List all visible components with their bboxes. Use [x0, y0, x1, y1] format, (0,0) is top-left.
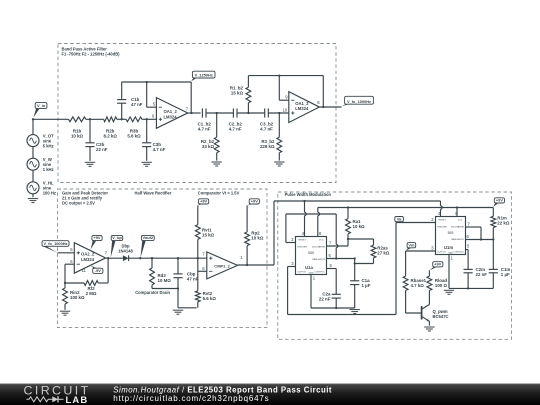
- footer attribution text: [113, 386, 332, 404]
- svg-text:8.2 kΩ: 8.2 kΩ: [104, 134, 118, 139]
- svg-text:OUTPUT: OUTPUT: [437, 252, 447, 254]
- label Rvt1: [202, 227, 215, 237]
- wire V_HL to ground: [32, 194, 34, 197]
- junction feedback/pin5: [146, 81, 148, 83]
- net flag V_bp: [111, 235, 123, 257]
- pin numbers U1m: [431, 211, 470, 261]
- svg-text:GND: GND: [309, 272, 314, 274]
- capacitor C2m: [464, 269, 473, 288]
- ground under sources: [28, 199, 38, 203]
- svg-text:5.6 kΩ: 5.6 kΩ: [127, 134, 141, 139]
- ground under Q_pwm emitter: [424, 327, 434, 331]
- node R2_b2 tap: [216, 112, 218, 114]
- svg-text:C1m: C1m: [501, 267, 511, 272]
- wire trigger to threshold: [336, 214, 338, 259]
- net flag Vm: [406, 242, 416, 250]
- resistor Rin2: [63, 283, 68, 310]
- resistor R2b: [104, 117, 117, 122]
- resistor Rload: [427, 270, 432, 290]
- svg-text:Vout2: Vout2: [143, 235, 154, 240]
- label C2b 22nF: [96, 142, 108, 152]
- svg-text:1 kHz: 1 kHz: [43, 167, 54, 172]
- label Rf2: [86, 286, 97, 296]
- label Rbase1: [411, 278, 427, 288]
- wire Rload to collector: [428, 291, 430, 305]
- net flag Vout2: [140, 235, 154, 257]
- svg-text:5 kHz: 5 kHz: [43, 144, 54, 149]
- svg-text:CMP2_2: CMP2_2: [214, 263, 230, 268]
- svg-text:R1m: R1m: [497, 215, 507, 220]
- junction divider/signal: [197, 257, 199, 259]
- label Rload: [435, 278, 448, 288]
- node OA1_2 output: [190, 112, 192, 114]
- label CMP2_2: [214, 263, 230, 268]
- +9V flag Rp2: [247, 199, 259, 206]
- wire +9V rail: [318, 207, 494, 209]
- wire C3_b2 to OA1_3 +: [268, 112, 289, 114]
- op-amp OA2_2: [74, 243, 105, 274]
- svg-text:4.7 nF: 4.7 nF: [198, 127, 211, 132]
- svg-text:47 nF: 47 nF: [187, 276, 199, 281]
- wire: OA1_2 feedback net: [122, 82, 192, 113]
- junction R2as/C1a: [354, 262, 356, 264]
- capacitor C1a: [350, 259, 359, 309]
- svg-text:V_HL: V_HL: [43, 181, 54, 186]
- svg-text:C1a: C1a: [362, 278, 371, 283]
- label C2a: [319, 292, 331, 302]
- ground under Rin2: [60, 311, 70, 315]
- svg-text:R2as: R2as: [377, 246, 388, 251]
- svg-text:10 kΩ: 10 kΩ: [251, 235, 264, 240]
- svg-text:V_in: V_in: [37, 103, 46, 108]
- svg-text:C2a: C2a: [322, 292, 331, 297]
- 555 timer U1a: [296, 237, 327, 275]
- resistor R1_b2: [246, 76, 251, 113]
- wire Rbase1 to base: [406, 291, 422, 314]
- svg-text:11: 11: [82, 268, 87, 273]
- junction discharge/threshold: [480, 238, 482, 240]
- label C2m: [476, 267, 488, 277]
- wire U1a control: [327, 269, 337, 295]
- resistor Rf2: [84, 281, 98, 286]
- wire V_OT to V_W: [32, 147, 34, 159]
- svg-text:R2_b2: R2_b2: [201, 139, 215, 144]
- svg-text:2 MΩ: 2 MΩ: [86, 291, 97, 296]
- resistor R2as: [371, 239, 376, 264]
- box 2 title: [62, 190, 108, 205]
- label Q_pwm BC547C: [433, 309, 449, 319]
- svg-text:sine: sine: [43, 162, 52, 167]
- wire: V_in node to R1b: [33, 119, 69, 134]
- wire OA1_2 out: [188, 112, 201, 114]
- svg-text:V_fo_1000Hz: V_fo_1000Hz: [347, 99, 371, 104]
- svg-text:22 nF: 22 nF: [476, 272, 488, 277]
- label Rin2: [70, 290, 85, 300]
- label OA1_3 LM324: [295, 101, 309, 111]
- svg-text:10: 10: [283, 107, 288, 112]
- svg-text:22 nF: 22 nF: [319, 297, 331, 302]
- label R3_b2: [260, 139, 275, 149]
- ground under C3b: [142, 162, 152, 166]
- svg-text:LAB: LAB: [66, 394, 89, 405]
- junction Ra1/discharge: [347, 238, 349, 240]
- wire U1a pin 8 drop: [318, 208, 320, 237]
- resistor Rvt2: [195, 291, 200, 302]
- svg-text:Rvt1: Rvt1: [202, 227, 212, 232]
- label V_HL sine 100 Hz: [43, 181, 56, 196]
- node Rd2 tap: [151, 257, 153, 259]
- ground under R3_b2: [274, 162, 284, 166]
- svg-text:OA2_2: OA2_2: [81, 252, 95, 257]
- wire Vm: U1m out to Rbase1: [406, 251, 436, 276]
- pin numbers U1a: [291, 231, 332, 281]
- op-amp OA1_2: [156, 98, 187, 129]
- wire C2_b2 to C3_b2: [237, 112, 265, 114]
- comparator title: [198, 190, 240, 195]
- svg-text:V_1250Hz: V_1250Hz: [195, 73, 213, 78]
- wire U1m bottom rail: [449, 287, 493, 289]
- capacitor C1_b2: [202, 108, 206, 117]
- svg-text:15 kΩ: 15 kΩ: [202, 232, 215, 237]
- svg-text:C2_b2: C2_b2: [229, 122, 243, 127]
- wire U1a trigger net: [286, 214, 336, 243]
- svg-text:+9V: +9V: [496, 198, 503, 203]
- wire U1m pin1: [448, 255, 450, 289]
- node R3_b2 tap: [278, 112, 280, 114]
- svg-text:C1b: C1b: [131, 97, 140, 102]
- svg-text:Pulse Width Modulation: Pulse Width Modulation: [285, 192, 332, 197]
- wire U1a ground rail: [311, 275, 355, 309]
- label Rd2: [158, 273, 172, 283]
- junction threshold/R1m: [492, 238, 494, 240]
- net flag V_fo_1000Hz out: [342, 96, 374, 106]
- node Vout2 tap: [139, 257, 141, 259]
- resistor R2_b2: [214, 113, 219, 161]
- svg-text:Comparator Vt = 1.5V: Comparator Vt = 1.5V: [198, 190, 240, 195]
- svg-text:10 kΩ: 10 kΩ: [71, 134, 84, 139]
- +9V flag Rload: [430, 262, 443, 271]
- pin numbers OA1_3: [283, 95, 321, 113]
- svg-text:Rp2: Rp2: [251, 230, 260, 235]
- svg-text:100 Ω: 100 Ω: [435, 283, 448, 288]
- svg-text:-9V: -9V: [95, 268, 101, 273]
- junction rail/Ra1: [347, 206, 349, 208]
- svg-text:F1 -750Hz F2 - 1250Hz (-40dB): F1 -750Hz F2 - 1250Hz (-40dB): [62, 52, 121, 57]
- svg-text:10 kΩ: 10 kΩ: [353, 224, 366, 229]
- wire U1a threshold: [327, 258, 355, 260]
- wire Rvt2 to drain rail: [197, 302, 199, 308]
- svg-text:Rvt2: Rvt2: [203, 291, 213, 296]
- svg-text:47 nF: 47 nF: [131, 102, 143, 107]
- net flag Va: [395, 216, 404, 222]
- svg-text:CONTROL: CONTROL: [453, 252, 464, 254]
- wire R2as bottom: [355, 263, 374, 265]
- label V_W sine 1 kHz: [43, 157, 54, 172]
- junction threshold/C1a: [354, 257, 356, 259]
- svg-text:27 kΩ: 27 kΩ: [377, 251, 390, 256]
- svg-text:555: 555: [448, 231, 454, 235]
- svg-text:U1a: U1a: [305, 265, 313, 270]
- wire V_W to V_HL: [32, 170, 34, 182]
- svg-text:Rin2: Rin2: [70, 290, 80, 295]
- dashed box: Gain and Peak Detector / Comparator: [58, 189, 268, 328]
- resistor Rd2: [150, 258, 155, 288]
- svg-text:CONTROL: CONTROL: [314, 272, 325, 274]
- capacitor C3_b2: [265, 108, 269, 117]
- resistor R3b: [126, 117, 142, 122]
- net flag V_in: [33, 103, 47, 118]
- svg-text:Gain and Peak Detector: Gain and Peak Detector: [62, 190, 108, 195]
- svg-text:1N4148: 1N4148: [118, 248, 133, 253]
- svg-text:33 kΩ: 33 kΩ: [202, 144, 215, 149]
- svg-text:22 nF: 22 nF: [96, 147, 108, 152]
- svg-text:LM324: LM324: [81, 257, 95, 262]
- resistor Rp2: [245, 205, 250, 265]
- pin numbers CMP2_2: [202, 251, 243, 271]
- svg-text:VCC: VCC: [458, 220, 463, 222]
- label R3b: [127, 129, 141, 139]
- svg-text:5.6 kΩ: 5.6 kΩ: [203, 296, 217, 301]
- svg-text:V_OT: V_OT: [43, 134, 54, 139]
- ground U1m: [444, 290, 454, 294]
- wire C1_b2 to C2_b2: [206, 112, 233, 114]
- label C3_b2: [260, 122, 274, 132]
- wire U1m discharge: [466, 227, 482, 240]
- wire: OA1_3 feedback net: [248, 76, 323, 107]
- resistor R1m: [491, 208, 496, 240]
- capacitor C2_b2: [233, 108, 237, 117]
- capacitor Cbp: [173, 258, 182, 288]
- resistor R1b: [69, 117, 86, 122]
- half wave rectifier title: [135, 190, 172, 195]
- svg-text:555: 555: [308, 251, 314, 255]
- svg-text:BC547C: BC547C: [433, 314, 449, 319]
- wire OA2_2 - to Rf2: [65, 264, 84, 283]
- label C2_b2: [229, 122, 243, 132]
- svg-text:RESET: RESET: [299, 240, 307, 242]
- svg-text:DC output = 2.5V: DC output = 2.5V: [62, 201, 95, 206]
- label R2as: [377, 246, 390, 256]
- ground comparator drain: [173, 310, 183, 314]
- junction rail/U1m pin8: [456, 206, 458, 208]
- 555 timer U1m: [436, 217, 466, 255]
- svg-text:http://circuitlab.com/c2h32npb: http://circuitlab.com/c2h32npbq647s: [113, 394, 269, 403]
- wire into OA2_2 +: [58, 252, 75, 254]
- source V_W: [27, 158, 39, 170]
- capacitor C1b: [117, 82, 126, 119]
- svg-text:15 kΩ: 15 kΩ: [231, 91, 244, 96]
- svg-text:sine: sine: [43, 139, 52, 144]
- source V_HL: [27, 182, 39, 194]
- svg-text:Rbase1: Rbase1: [411, 278, 427, 283]
- label C1m: [501, 267, 511, 277]
- junction C2m/rail: [467, 287, 469, 289]
- junction C2a/gnd rail: [335, 307, 337, 309]
- wire divider to comparator -: [198, 270, 207, 272]
- svg-text:226 kΩ: 226 kΩ: [260, 144, 275, 149]
- junction Rd2/Cbp bottom: [177, 287, 179, 289]
- wire diode to comparator +: [129, 257, 207, 259]
- svg-text:100 Hz: 100 Hz: [43, 191, 56, 196]
- svg-text:22 kΩ: 22 kΩ: [497, 220, 510, 225]
- label OA1_2 LM324: [164, 109, 178, 119]
- svg-text:TRIGGER: TRIGGER: [437, 227, 447, 229]
- svg-text:THRESHOLD: THRESHOLD: [312, 259, 326, 261]
- svg-text:Cbp: Cbp: [187, 271, 196, 276]
- wire OA2_2 out to diode: [106, 257, 123, 259]
- wire OA1_3 output: [319, 106, 341, 108]
- svg-text:V_fo_1000Hz: V_fo_1000Hz: [43, 241, 67, 246]
- capacitor C1m: [489, 240, 498, 289]
- label C1b 47nF: [131, 97, 143, 107]
- svg-text:4.7 nF: 4.7 nF: [260, 127, 273, 132]
- svg-text:Half Wave Rectifier: Half Wave Rectifier: [135, 190, 172, 195]
- label R1m: [497, 215, 510, 225]
- wire U1m pin 4 drop: [441, 201, 443, 217]
- svg-text:1 µF: 1 µF: [501, 272, 510, 277]
- wire Ra1 to R2as: [348, 238, 374, 240]
- svg-text:C3b: C3b: [153, 142, 162, 147]
- op-amp OA1_3: [289, 92, 320, 123]
- -9V flag OA2_2: [91, 266, 103, 274]
- wire R1b to R2b: [86, 118, 104, 120]
- label C1_b2: [198, 122, 212, 132]
- svg-text:GND: GND: [448, 252, 453, 254]
- svg-text:THRESHOLD: THRESHOLD: [451, 239, 465, 241]
- wire Va: U1a out to U1m trigger: [288, 223, 436, 315]
- svg-text:C2b: C2b: [96, 142, 105, 147]
- node Rp2/output: [246, 264, 248, 266]
- svg-text:LM324: LM324: [295, 106, 309, 111]
- svg-text:R1_b2: R1_b2: [230, 86, 244, 91]
- transistor Q_pwm: [422, 305, 430, 326]
- junction reset rail / U1a pin4: [303, 200, 305, 202]
- ground U1a: [350, 310, 360, 314]
- label Comparator Drain: [135, 290, 170, 295]
- svg-text:100 kΩ: 100 kΩ: [70, 295, 85, 300]
- svg-text:VCC: VCC: [319, 240, 324, 242]
- CircuitLab logo: [24, 383, 91, 405]
- svg-text:TRIGGER: TRIGGER: [297, 247, 307, 249]
- capacitor C3b: [142, 119, 151, 161]
- net flag V_1250Hz: [191, 71, 215, 81]
- svg-text:1 µF: 1 µF: [362, 283, 371, 288]
- pin numbers OA2_2: [70, 247, 108, 273]
- svg-text:OA1_3: OA1_3: [295, 101, 309, 106]
- dashed box: Pulse Width Modulation: [278, 192, 512, 339]
- svg-text:Rf2: Rf2: [87, 286, 95, 291]
- +9V flag PWM rail: [493, 198, 504, 207]
- svg-text:R2b: R2b: [106, 129, 115, 134]
- label OA2_2 LM324: [81, 252, 95, 262]
- svg-text:R3b: R3b: [130, 129, 139, 134]
- wire comparator output: [238, 264, 275, 266]
- pin numbers OA1_2: [152, 102, 189, 119]
- resistor Rbase1: [403, 276, 408, 290]
- svg-text:V_W: V_W: [43, 157, 52, 162]
- svg-text:10 MΩ: 10 MΩ: [158, 278, 172, 283]
- svg-text:Q_pwm: Q_pwm: [433, 309, 448, 314]
- svg-text:+9V: +9V: [434, 262, 441, 267]
- ground under R2_b2: [212, 162, 222, 166]
- svg-text:Ra1: Ra1: [353, 219, 362, 224]
- node R1_b2 tap: [247, 112, 249, 114]
- dashed box: Band Pass Active Filter: [58, 44, 336, 183]
- box 1 title: [62, 46, 121, 56]
- label Ra1: [353, 219, 366, 229]
- svg-text:Comparator Drain: Comparator Drain: [135, 290, 170, 295]
- svg-text:Rd2: Rd2: [158, 273, 167, 278]
- node C3b tap: [146, 118, 148, 120]
- svg-text:C1_b2: C1_b2: [198, 122, 212, 127]
- +9V flag Rvt1: [198, 199, 209, 206]
- node OA2_2 output: [107, 257, 109, 259]
- svg-text:4.7 kΩ: 4.7 kΩ: [411, 283, 425, 288]
- node V_in junction: [32, 118, 34, 120]
- label R2b: [104, 129, 118, 139]
- svg-text:Band Pass Active Filter: Band Pass Active Filter: [62, 46, 108, 51]
- wire U1m control: [466, 250, 469, 270]
- svg-text:Vm: Vm: [408, 242, 415, 247]
- resistor Ra1: [346, 208, 351, 240]
- label Rvt2: [203, 291, 217, 301]
- svg-text:OUTPUT: OUTPUT: [297, 272, 307, 274]
- svg-text:4.7 nF: 4.7 nF: [153, 147, 166, 152]
- svg-text:C2m: C2m: [476, 267, 486, 272]
- label R2_b2: [201, 139, 215, 149]
- label C3b: [153, 142, 166, 152]
- label Rp2: [251, 230, 264, 240]
- wire U1a pin 4 drop: [305, 201, 307, 237]
- node OA1_3 output: [322, 106, 324, 108]
- svg-text:sine: sine: [43, 186, 52, 191]
- node C1b tap: [121, 118, 123, 120]
- svg-text:Dbp: Dbp: [121, 243, 130, 248]
- svg-text:R1b: R1b: [73, 129, 82, 134]
- junction Rf2/Rin2: [64, 282, 66, 284]
- label V_OT sine 5 kHz: [43, 134, 54, 149]
- resistor R3_b2: [277, 113, 282, 161]
- svg-text:V_bp: V_bp: [112, 235, 122, 240]
- +9V flag OA2_2: [91, 235, 103, 249]
- label Dbp 1N4148: [118, 243, 133, 253]
- footer bar: [0, 384, 540, 405]
- label R1_b2: [230, 86, 244, 96]
- svg-text:RESET: RESET: [439, 220, 447, 222]
- svg-text:OA1_2: OA1_2: [164, 109, 178, 114]
- comparator CMP2_2: [207, 252, 238, 279]
- net flag V_fo_1000Hz in: [42, 241, 69, 253]
- wire U1m pin 8 drop: [456, 208, 458, 217]
- wire R3b to op-amp +: [142, 118, 157, 120]
- junction feedback/pin9: [278, 74, 280, 76]
- diode Dbp: [123, 255, 129, 261]
- node C2b tap: [89, 118, 91, 120]
- label Cbp: [187, 271, 199, 281]
- capacitor C2a: [332, 294, 341, 308]
- node Cbp tap: [177, 257, 179, 259]
- svg-text:21 x Gain and rectify: 21 x Gain and rectify: [62, 196, 103, 201]
- svg-text:+9V: +9V: [93, 235, 100, 240]
- wire comparator out to reset rail: [274, 201, 441, 265]
- resistor Rvt1 and divider wire: [195, 205, 200, 291]
- svg-text:R3_b2: R3_b2: [261, 139, 275, 144]
- box 3 title: [285, 192, 332, 197]
- svg-text:+9V: +9V: [200, 199, 207, 204]
- svg-text:U1m: U1m: [444, 245, 453, 250]
- svg-text:LM324: LM324: [164, 115, 178, 120]
- svg-text:+9V: +9V: [251, 199, 258, 204]
